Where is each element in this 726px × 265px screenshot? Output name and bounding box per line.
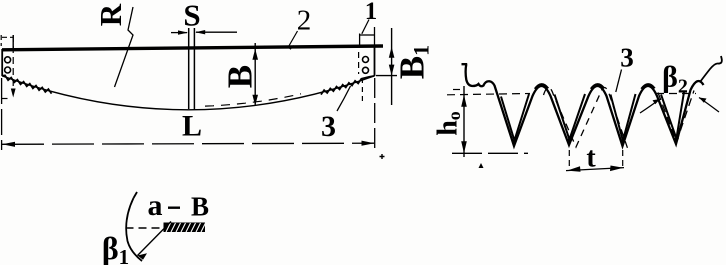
S dimension arrows (171, 32, 187, 34)
dimension t extension dashes below tips (568, 150, 570, 167)
svg-text:R: R (93, 3, 128, 26)
bevel face line (beta1) (138, 222, 172, 256)
left handle holes (5, 57, 11, 63)
detail: inner double lines of teeth (501, 94, 529, 141)
svg-text:B: B (221, 65, 260, 88)
svg-text:a: a (148, 189, 163, 222)
detail: dashed line through tooth tops (447, 94, 530, 95)
left end small dimension bracket (0, 35, 2, 46)
label 3 (main view) leader (337, 86, 351, 111)
dimension B1 line with outside arrows (391, 28, 393, 105)
svg-text:t: t (586, 143, 596, 174)
R leader (zigzag) (115, 7, 134, 87)
tooth line: right zigzag teeth (321, 76, 375, 95)
item 1 dimension bracket at right end (359, 34, 361, 48)
blade back edge (part 2 top line) (2, 46, 383, 50)
svg-text:S: S (183, 0, 200, 33)
svg-text:3: 3 (321, 110, 336, 143)
dimension L line (2, 143, 374, 144)
label 2 leader (288, 31, 298, 48)
tooth line: middle smooth concave arc (2, 76, 375, 110)
svg-text:1: 1 (365, 0, 378, 25)
tooth line: left zigzag teeth (2, 75, 52, 93)
dimension t line (566, 168, 624, 171)
detail: dashed line through tooth tips (452, 152, 528, 154)
dimension L extension lines (1, 78, 3, 150)
svg-text:2: 2 (297, 5, 312, 37)
svg-text:L: L (182, 110, 202, 143)
hatched blade section bar (164, 223, 206, 233)
dashed centre line of section (126, 227, 164, 229)
detail: dashed unsharpened profile (544, 88, 628, 149)
label 3 (detail) leader (616, 70, 622, 93)
svg-text:3: 3 (620, 43, 634, 73)
svg-text:B: B (191, 192, 209, 222)
dashed tooth-root line (middle) (205, 94, 301, 106)
right hole centreline dashes (358, 52, 360, 74)
B1 top extension (back line continues) / bottom extension (376, 75, 397, 77)
detail: dashed V of last tooth (angle beta2) (658, 91, 694, 143)
beta2 angle arc arrows (640, 99, 660, 113)
detail: thick gullet caps (535, 84, 655, 89)
small a mark under tip line (479, 163, 484, 168)
dimension h0 line with arrows (463, 86, 465, 157)
right handle holes (363, 57, 369, 63)
blade right end edge (374, 47, 376, 77)
detail: right break squiggle (700, 56, 722, 82)
small plus mark below right end of L (380, 154, 385, 159)
left hole centreline (dashed, with down arrow) (12, 35, 14, 94)
blade section lines (thickness S) (188, 28, 190, 109)
angle arc (126, 198, 142, 261)
blade left end edge (1, 49, 3, 76)
detail: left break squiggle + tooth profile outer line (462, 64, 704, 146)
leader for label 1 (362, 20, 369, 34)
detail: tooth tip blobs (512, 140, 518, 147)
dimension B (middle width) (254, 43, 256, 106)
